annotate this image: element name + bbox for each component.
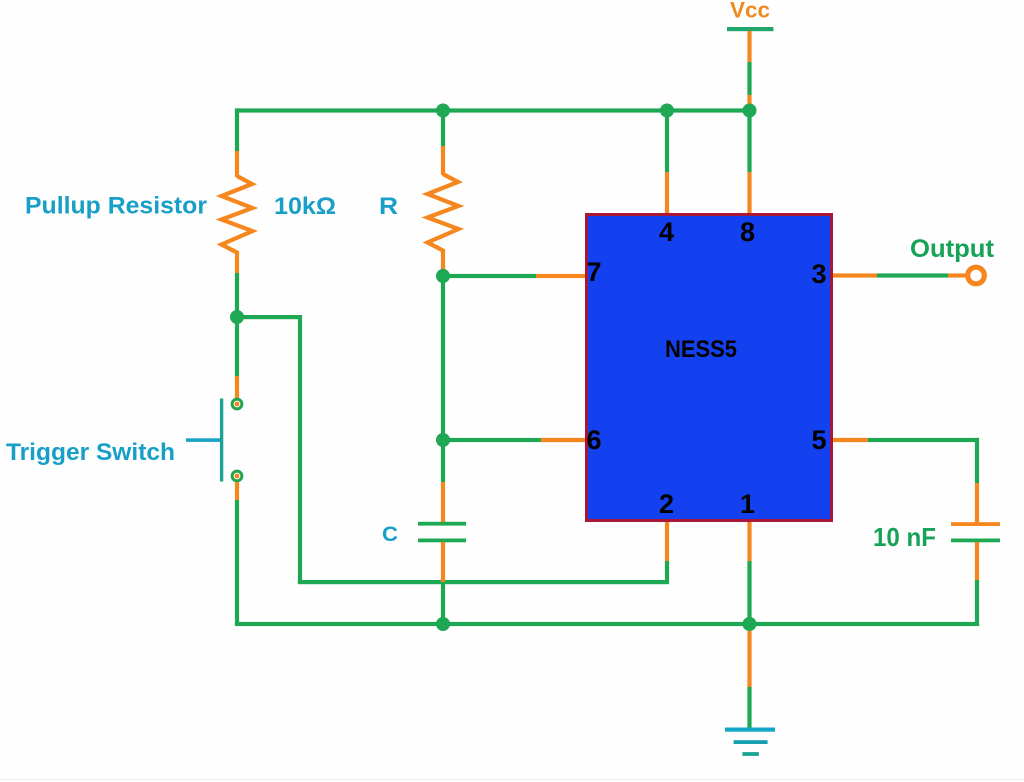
node top rail pin4: [660, 104, 674, 118]
node trigger junction: [230, 310, 244, 324]
capacitor C2 10nF: [951, 522, 1000, 542]
wire C bottom lead: [441, 542, 445, 625]
wire pin6: [443, 438, 585, 442]
svg-text:6: 6: [586, 425, 601, 455]
wire C top lead: [441, 440, 445, 524]
wire left vertical upper (to R1): [235, 108, 239, 151]
wire R1 bottom to node: [235, 273, 239, 319]
wire branch node to x300: [235, 315, 302, 319]
wire bottom rail: [235, 622, 979, 626]
wire pin1: [747, 522, 751, 624]
wire ground stem: [747, 631, 751, 729]
wire pin2: [665, 522, 669, 584]
wire vertical x300: [298, 315, 302, 584]
wire right vertical lower: [975, 542, 979, 626]
wire Vcc stem (orange/green/orange): [747, 31, 751, 110]
node pin6 junction: [436, 433, 450, 447]
svg-text:3: 3: [811, 259, 826, 289]
node C bottom rail: [436, 617, 450, 631]
wire switch bottom lead: [235, 482, 239, 626]
svg-text:R: R: [379, 193, 398, 220]
node ground junction: [743, 617, 757, 631]
switch lever line: [186, 438, 220, 442]
wire pin7: [443, 274, 585, 278]
node top rail R2: [436, 104, 450, 118]
capacitor C: [418, 522, 466, 543]
svg-text:1: 1: [740, 489, 755, 519]
wire right vertical upper: [975, 438, 979, 524]
svg-text:Trigger Switch: Trigger Switch: [6, 439, 175, 466]
switch actuator bar: [220, 399, 223, 482]
svg-text:10kΩ: 10kΩ: [274, 193, 336, 220]
svg-text:Vcc: Vcc: [730, 0, 770, 23]
svg-text:NESS5: NESS5: [665, 336, 737, 363]
svg-text:10 nF: 10 nF: [873, 522, 936, 552]
wire pin4: [665, 111, 669, 214]
svg-text:Pullup Resistor: Pullup Resistor: [25, 193, 207, 220]
wire R2 node to pin6 node: [441, 276, 445, 440]
switch contact bottom: [232, 471, 242, 481]
ground: [725, 728, 775, 756]
wire R2 top: [441, 108, 445, 147]
svg-text:5: 5: [811, 425, 826, 455]
switch contact top: [232, 399, 242, 409]
svg-text:8: 8: [740, 217, 755, 247]
Vcc power bar: [727, 27, 774, 31]
wire top rail: [235, 108, 752, 112]
svg-text:C: C: [382, 523, 398, 546]
resistor R2: [428, 146, 459, 276]
resistor R1 (Pullup 10k): [222, 151, 253, 273]
node top rail pin8: [743, 104, 757, 118]
svg-text:Output: Output: [910, 235, 995, 263]
svg-text:2: 2: [659, 489, 674, 519]
svg-text:4: 4: [659, 217, 674, 247]
wire switch top lead: [235, 317, 239, 398]
wire pin8: [747, 111, 751, 214]
wire pin3 output: [833, 273, 966, 277]
wire horizontal y582 to pin2: [298, 580, 669, 584]
node pin7 junction: [436, 269, 450, 283]
wire pin5: [833, 438, 979, 442]
svg-text:7: 7: [586, 257, 601, 287]
op-amp U1 NE555 box: [587, 215, 832, 521]
output terminal circle: [968, 267, 985, 284]
